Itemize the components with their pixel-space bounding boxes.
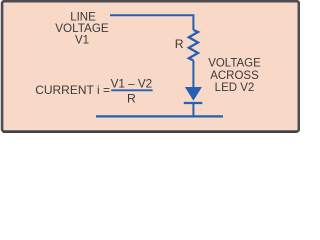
svg-text:V1: V1: [75, 34, 89, 46]
svg-text:CURRENT i =: CURRENT i =: [35, 83, 110, 97]
svg-text:VOLTAGE: VOLTAGE: [55, 22, 109, 35]
svg-text:ACROSS: ACROSS: [210, 70, 259, 82]
svg-text:LED V2: LED V2: [215, 82, 255, 94]
svg-text:V1 – V2: V1 – V2: [111, 77, 153, 90]
svg-text:R: R: [127, 92, 136, 106]
svg-text:VOLTAGE: VOLTAGE: [208, 58, 261, 70]
svg-text:R: R: [175, 37, 184, 51]
